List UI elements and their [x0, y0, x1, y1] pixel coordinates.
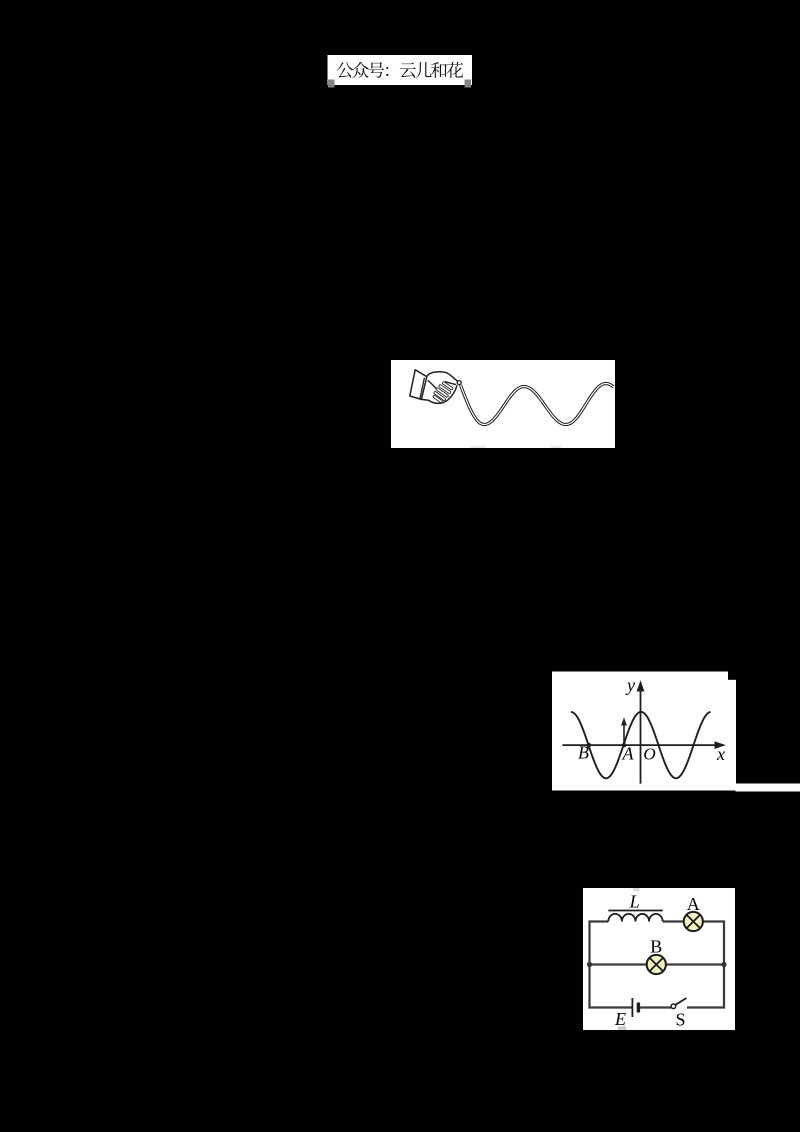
point A arrowhead — [621, 717, 627, 725]
switch lever — [675, 998, 686, 1005]
rope wave inner white split — [461, 384, 614, 425]
inductor core line — [608, 910, 663, 912]
fist dome and thumb top edge — [427, 372, 459, 382]
wire middle branch — [590, 963, 725, 965]
y axis arrowhead — [637, 680, 645, 691]
svg-text:x: x — [716, 744, 725, 764]
finger 4 — [435, 393, 444, 399]
wire right vertical — [723, 922, 725, 1008]
graph notch top-right — [728, 672, 736, 680]
sleeve inner cuff line — [420, 378, 424, 399]
fist outer ridge and bottom — [421, 386, 456, 404]
svg-text:E: E — [614, 1009, 626, 1029]
finger 5 — [434, 397, 441, 402]
svg-text:A: A — [622, 744, 635, 764]
title white box — [328, 55, 473, 85]
svg-text:L: L — [629, 892, 640, 912]
title text 公众号：云儿和花 — [337, 62, 463, 78]
graph white box — [552, 672, 736, 791]
circuit white box — [583, 888, 735, 1030]
finger 1 under thumb — [444, 383, 452, 388]
svg-text:A: A — [687, 894, 700, 914]
dot A — [622, 743, 627, 748]
thumb tip nib — [457, 381, 461, 385]
finger 3 — [437, 389, 447, 396]
x axis arrowhead — [715, 741, 726, 749]
wire top middle segment — [663, 920, 685, 922]
wire top right segment — [702, 920, 725, 922]
junction dot left — [587, 962, 592, 967]
y axis — [640, 684, 642, 784]
circuit handle top — [633, 888, 640, 892]
svg-text:B: B — [578, 743, 589, 763]
wire battery-switch segment — [640, 1006, 672, 1008]
rope wave outer stroke — [461, 384, 614, 425]
circuit handle bottom — [618, 1026, 626, 1030]
arrow at point A — [623, 722, 625, 745]
graph white strip to page edge — [736, 784, 800, 792]
svg-text:O: O — [643, 745, 655, 764]
lamp A — [684, 912, 703, 931]
wave box bottom smudge 1 — [470, 446, 485, 448]
wire top left segment — [588, 920, 608, 922]
finger 2 — [440, 386, 449, 392]
title handle left — [328, 80, 335, 88]
x axis — [562, 744, 723, 746]
title handle right — [465, 80, 472, 88]
wire switch-right segment — [687, 1006, 725, 1008]
svg-text:S: S — [675, 1010, 685, 1030]
lamp B — [647, 955, 666, 974]
battery plate short — [637, 1003, 640, 1013]
wave box bottom smudge 2 — [551, 446, 561, 448]
dot B — [587, 743, 592, 748]
inductor L coil — [608, 914, 662, 922]
hand sleeve cuff — [410, 370, 427, 400]
svg-text:y: y — [625, 675, 635, 695]
palm thumb-base crease — [428, 381, 437, 390]
wire bottom left segment — [588, 1006, 631, 1008]
thumb underside — [446, 382, 456, 385]
svg-text:B: B — [650, 937, 662, 957]
junction dot right — [721, 962, 726, 967]
switch pivot — [671, 1004, 676, 1009]
sine curve — [571, 712, 711, 778]
wire left vertical — [588, 922, 590, 1008]
battery plate long — [631, 998, 633, 1017]
wave figure white box — [391, 360, 615, 448]
